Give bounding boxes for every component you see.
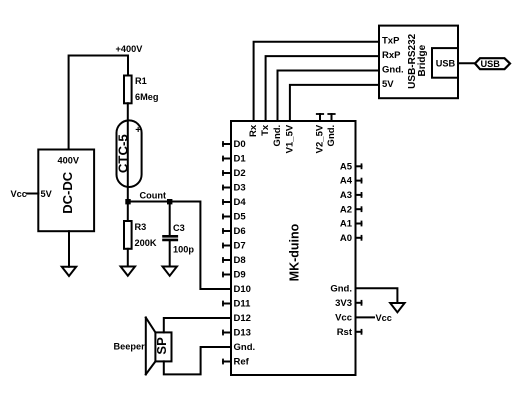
svg-text:Rst: Rst bbox=[337, 327, 353, 338]
resistor R3 bbox=[124, 221, 132, 249]
svg-text:D7: D7 bbox=[234, 241, 246, 252]
wire SP bottom to Gnd bbox=[164, 347, 231, 374]
wire Vcc to DC-DC bbox=[27, 193, 38, 195]
svg-text:6Meg: 6Meg bbox=[135, 92, 159, 102]
svg-text:400V: 400V bbox=[58, 156, 80, 166]
svg-text:A2: A2 bbox=[340, 204, 352, 215]
svg-text:D10: D10 bbox=[234, 284, 251, 295]
wire Count to D10 bbox=[128, 202, 231, 290]
pin A3 right bbox=[340, 190, 362, 201]
svg-text:Ref: Ref bbox=[234, 357, 250, 368]
pin Gnd. left bbox=[234, 342, 256, 353]
svg-text:D9: D9 bbox=[234, 270, 246, 281]
pin Rx top bbox=[248, 124, 259, 137]
GM tube CTC-5 bbox=[117, 120, 142, 187]
svg-text:+400V: +400V bbox=[116, 44, 144, 54]
svg-text:Rx: Rx bbox=[248, 124, 259, 137]
IC U1 MK-duino body bbox=[231, 121, 356, 375]
pin Gnd. top bbox=[326, 114, 337, 146]
svg-text:Tx: Tx bbox=[260, 124, 271, 136]
svg-text:D1: D1 bbox=[234, 154, 247, 165]
svg-text:V2_5V: V2_5V bbox=[315, 124, 326, 153]
svg-text:5V: 5V bbox=[41, 189, 53, 199]
pin A5 right bbox=[340, 161, 362, 172]
wire RxP to Tx bbox=[266, 56, 379, 121]
svg-text:A0: A0 bbox=[340, 233, 352, 244]
wire R3 to ground bbox=[127, 249, 129, 267]
pin Gnd. top bbox=[272, 125, 283, 147]
pin D13 left bbox=[223, 328, 251, 339]
svg-text:Gnd.: Gnd. bbox=[330, 283, 352, 294]
svg-text:USB: USB bbox=[436, 59, 456, 69]
svg-text:V1_5V: V1_5V bbox=[285, 124, 296, 153]
pin A1 right bbox=[340, 219, 362, 230]
pin D1 left bbox=[223, 154, 246, 165]
svg-text:Gnd.: Gnd. bbox=[234, 342, 256, 353]
svg-text:D11: D11 bbox=[234, 299, 252, 310]
pin Tx top bbox=[260, 124, 271, 136]
wire GndP to Gnd bbox=[278, 71, 380, 122]
wire C3 to ground bbox=[169, 241, 171, 267]
pin D12 left bbox=[234, 313, 251, 324]
svg-text:5V: 5V bbox=[382, 79, 394, 90]
svg-text:A1: A1 bbox=[340, 219, 353, 230]
svg-text:D12: D12 bbox=[234, 313, 251, 324]
label Beeper bbox=[114, 342, 146, 352]
svg-text:100p: 100p bbox=[173, 245, 194, 255]
wire R1 to Count node bbox=[127, 103, 129, 201]
svg-text:USB: USB bbox=[481, 59, 501, 69]
svg-text:A3: A3 bbox=[340, 190, 352, 201]
pin A4 right bbox=[340, 176, 362, 187]
pin D9 left bbox=[223, 270, 246, 281]
pin D3 left bbox=[223, 183, 246, 194]
svg-text:Vcc: Vcc bbox=[376, 313, 392, 323]
wire SP top to D12 bbox=[164, 318, 231, 332]
pin D7 left bbox=[223, 241, 246, 252]
ground under R3 bbox=[121, 267, 135, 276]
svg-text:D13: D13 bbox=[234, 328, 251, 339]
pin Vcc right bbox=[335, 313, 352, 324]
pin D6 left bbox=[223, 226, 246, 237]
svg-text:MK-duino: MK-duino bbox=[287, 223, 301, 281]
wire C3 tap down bbox=[169, 202, 171, 236]
pin 3V3 right bbox=[335, 298, 361, 309]
svg-text:D5: D5 bbox=[234, 212, 247, 223]
svg-text:A4: A4 bbox=[340, 176, 353, 187]
ground right of chip bbox=[390, 303, 404, 312]
svg-text:R3: R3 bbox=[135, 222, 147, 232]
pin D4 left bbox=[223, 197, 246, 208]
svg-text:3V3: 3V3 bbox=[335, 298, 352, 309]
svg-text:D0: D0 bbox=[234, 139, 246, 150]
svg-text:+: + bbox=[135, 125, 141, 136]
pin Gnd. right bbox=[330, 283, 352, 294]
pin D0 left bbox=[223, 139, 246, 150]
svg-text:CTC-5: CTC-5 bbox=[116, 134, 131, 173]
svg-text:Beeper: Beeper bbox=[114, 342, 146, 352]
svg-text:R1: R1 bbox=[135, 76, 147, 86]
junction C3 tap bbox=[167, 199, 172, 204]
svg-text:D6: D6 bbox=[234, 226, 246, 237]
pin D8 left bbox=[223, 255, 246, 266]
svg-text:Vcc: Vcc bbox=[11, 189, 27, 199]
wire Gnd right to ground bbox=[356, 288, 398, 303]
IC U2 USB-RS232 bridge bbox=[379, 26, 458, 99]
DC-DC converter module bbox=[38, 150, 94, 232]
svg-text:DC-DC: DC-DC bbox=[60, 171, 75, 213]
svg-text:C3: C3 bbox=[173, 223, 185, 233]
node USB tag bbox=[475, 58, 510, 69]
USB port box bbox=[432, 48, 458, 78]
svg-text:A5: A5 bbox=[340, 161, 353, 172]
pin D5 left bbox=[223, 212, 246, 223]
wire TxP to Rx bbox=[254, 42, 379, 121]
resistor R1 bbox=[124, 76, 132, 104]
svg-text:Gnd.: Gnd. bbox=[326, 125, 337, 147]
svg-text:Bridge: Bridge bbox=[417, 44, 428, 76]
wire DC-DC to ground bbox=[68, 231, 70, 267]
ground under C3 bbox=[163, 267, 177, 276]
svg-text:Vcc: Vcc bbox=[335, 313, 352, 324]
speaker SP beeper bbox=[146, 318, 172, 375]
pin Rst right bbox=[337, 327, 362, 338]
svg-text:200K: 200K bbox=[135, 238, 157, 248]
pin V1_5V top bbox=[285, 124, 296, 153]
wire Count to R3 bbox=[127, 202, 129, 222]
pin Ref left bbox=[223, 357, 250, 368]
pin D2 left bbox=[223, 168, 246, 179]
pin V2_5V top bbox=[315, 114, 326, 153]
pin A0 right bbox=[340, 233, 362, 244]
svg-text:SP: SP bbox=[154, 337, 169, 355]
svg-text:Gnd.: Gnd. bbox=[272, 125, 283, 147]
capacitor C3 bbox=[164, 235, 177, 238]
node +400V bbox=[116, 44, 144, 54]
svg-text:D8: D8 bbox=[234, 255, 246, 266]
svg-text:RxP: RxP bbox=[382, 50, 401, 61]
wire Vcc right bbox=[356, 316, 375, 318]
node Vcc left bbox=[11, 189, 27, 199]
svg-text:D2: D2 bbox=[234, 168, 246, 179]
svg-text:Gnd.: Gnd. bbox=[382, 64, 404, 75]
pin A2 right bbox=[340, 204, 362, 215]
svg-text:D3: D3 bbox=[234, 183, 246, 194]
wire USB port to tag bbox=[458, 62, 475, 64]
pin D10 left bbox=[234, 284, 251, 295]
node Vcc right bbox=[376, 313, 392, 323]
wire 5VP to V1_5V bbox=[290, 85, 379, 121]
svg-text:Count: Count bbox=[140, 191, 167, 201]
node Count bbox=[125, 199, 130, 204]
svg-text:D4: D4 bbox=[234, 197, 247, 208]
svg-text:TxP: TxP bbox=[382, 36, 400, 47]
ground under DC-DC bbox=[62, 267, 76, 276]
wire +400V rail bbox=[69, 56, 128, 150]
pin D11 left bbox=[223, 299, 251, 310]
